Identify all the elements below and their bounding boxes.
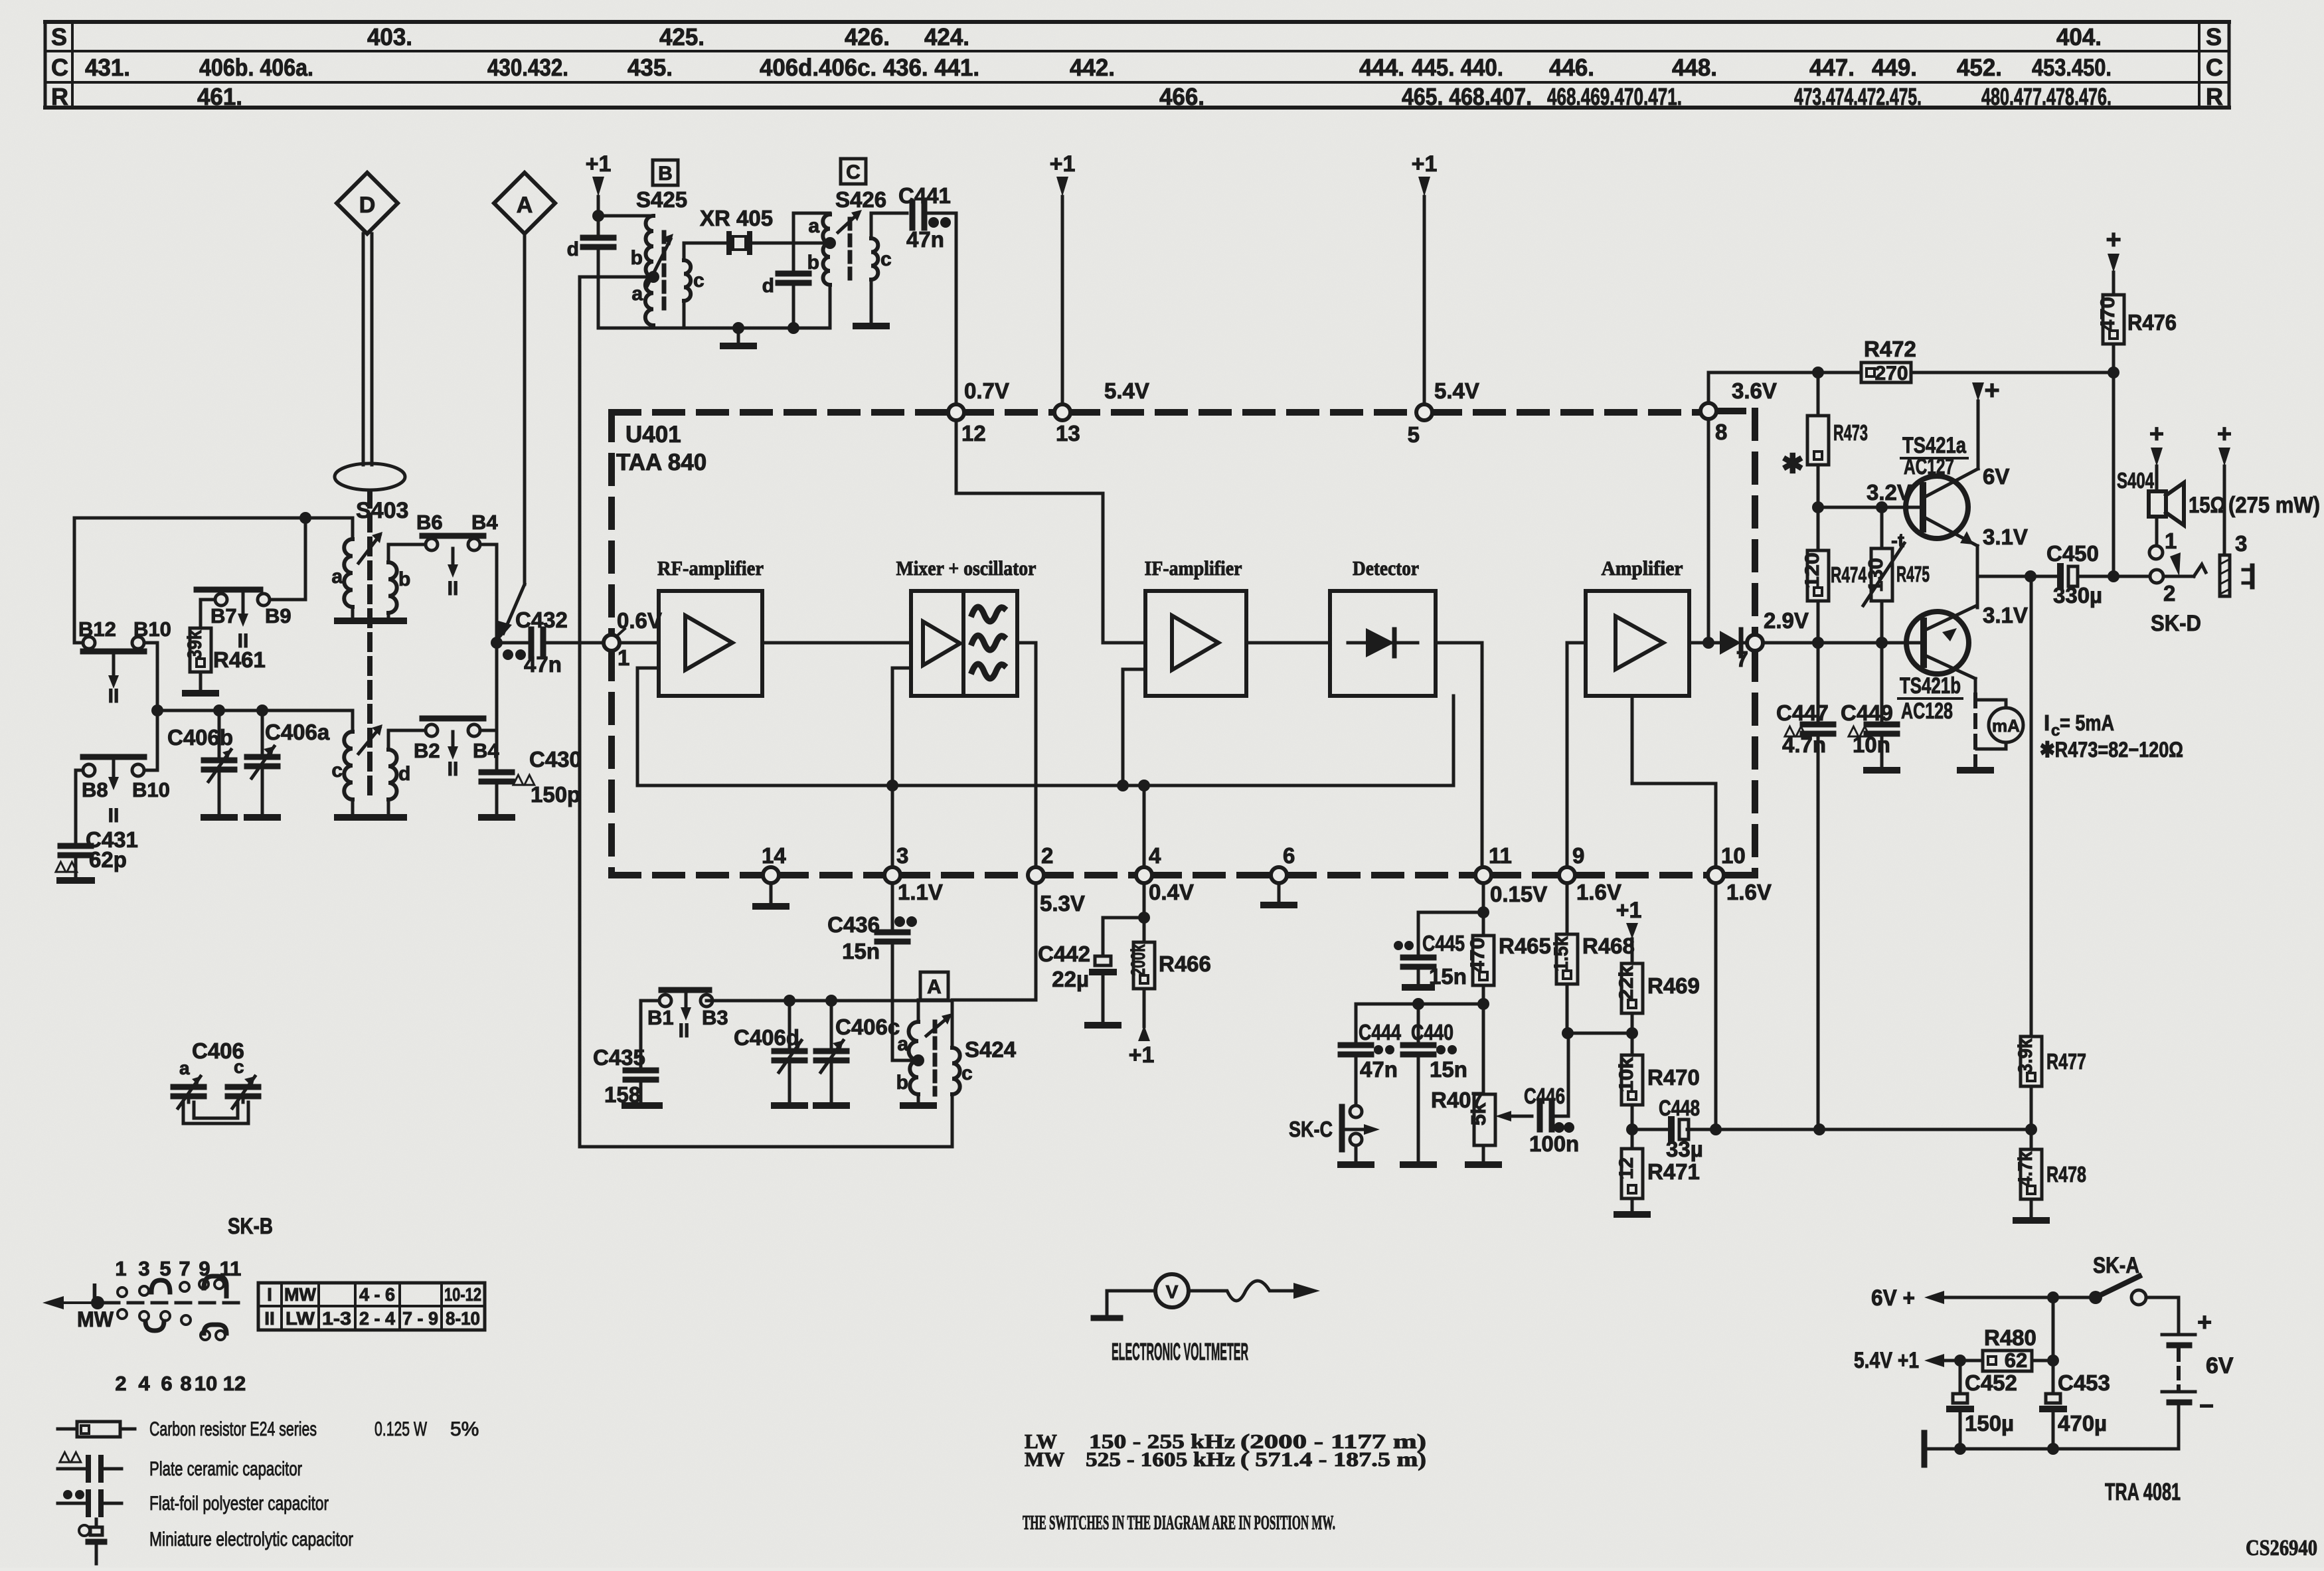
- svg-text:461.: 461.: [197, 83, 242, 110]
- svg-text:33µ: 33µ: [1666, 1137, 1703, 1161]
- svg-text:468.469.470.471.: 468.469.470.471.: [1547, 83, 1682, 110]
- svg-text:C406d: C406d: [734, 1025, 799, 1050]
- svg-text:II: II: [264, 1308, 275, 1329]
- svg-text:Flat-foil polyester capacitor: Flat-foil polyester capacitor: [149, 1493, 329, 1515]
- svg-text:3: 3: [2235, 531, 2247, 556]
- svg-text:C: C: [846, 161, 861, 183]
- svg-text:c: c: [2051, 722, 2060, 740]
- svg-text:150µ: 150µ: [1965, 1411, 2014, 1436]
- svg-text:a: a: [179, 1058, 190, 1078]
- svg-text:R466: R466: [1159, 951, 1211, 976]
- svg-text:C406b: C406b: [167, 725, 233, 750]
- svg-text:R470: R470: [1647, 1065, 1700, 1090]
- svg-text:11: 11: [1489, 843, 1512, 868]
- svg-text:403.: 403.: [367, 23, 412, 50]
- svg-text:C441: C441: [898, 183, 951, 208]
- svg-text:424.: 424.: [924, 23, 969, 50]
- svg-text:R476: R476: [2127, 310, 2177, 335]
- svg-text:R477: R477: [2046, 1049, 2086, 1074]
- svg-text:U401: U401: [625, 422, 681, 448]
- svg-text:3: 3: [896, 843, 908, 868]
- svg-text:d: d: [398, 763, 410, 785]
- svg-text:SK-B: SK-B: [228, 1214, 273, 1239]
- svg-text:IF-amplifier: IF-amplifier: [1145, 556, 1242, 580]
- svg-text:0.125 W: 0.125 W: [374, 1418, 427, 1440]
- svg-text:R469: R469: [1647, 973, 1700, 998]
- svg-text:3: 3: [138, 1257, 149, 1280]
- svg-text:II: II: [448, 578, 459, 600]
- svg-text:6V: 6V: [1983, 464, 2009, 489]
- svg-text:15n: 15n: [842, 939, 880, 963]
- svg-text:+1: +1: [1129, 1042, 1155, 1068]
- svg-text:3.1V: 3.1V: [1983, 525, 2028, 549]
- svg-text:C406c: C406c: [835, 1015, 900, 1039]
- svg-text:a: a: [331, 566, 343, 588]
- svg-text:✱R473=82−120Ω: ✱R473=82−120Ω: [2040, 738, 2183, 762]
- svg-text:R474: R474: [1831, 562, 1867, 587]
- svg-text:465. 468.407.: 465. 468.407.: [1402, 83, 1532, 110]
- svg-text:b: b: [398, 568, 410, 590]
- svg-text:3.9k: 3.9k: [2015, 1038, 2036, 1074]
- svg-text:10-12: 10-12: [444, 1284, 481, 1305]
- svg-text:C: C: [2206, 54, 2223, 81]
- svg-text:R465: R465: [1499, 934, 1551, 958]
- svg-text:6V: 6V: [2206, 1353, 2234, 1378]
- svg-text:a: a: [631, 283, 643, 305]
- svg-text:SK-D: SK-D: [2151, 611, 2201, 636]
- svg-text:444.: 444.: [1359, 54, 1404, 81]
- svg-text:5.4V: 5.4V: [1104, 378, 1149, 403]
- svg-text:6V +: 6V +: [1871, 1285, 1915, 1311]
- svg-text:158: 158: [604, 1082, 641, 1107]
- svg-text:S426: S426: [835, 187, 886, 212]
- svg-text:B2: B2: [414, 739, 440, 762]
- svg-text:5.3V: 5.3V: [1040, 891, 1085, 916]
- svg-text:R478: R478: [2046, 1162, 2086, 1187]
- svg-text:THE SWITCHES IN THE DIAGRAM AR: THE SWITCHES IN THE DIAGRAM ARE IN POSIT…: [1023, 1511, 1335, 1534]
- svg-text:120: 120: [1801, 552, 1823, 588]
- svg-text:1: 1: [618, 645, 629, 670]
- svg-text:12: 12: [1616, 1157, 1637, 1179]
- svg-text:mA: mA: [1992, 716, 2020, 736]
- svg-text:5: 5: [159, 1257, 171, 1280]
- svg-text:406d.406c. 436. 441.: 406d.406c. 436. 441.: [760, 54, 979, 81]
- svg-text:CS26940: CS26940: [2246, 1536, 2317, 1560]
- svg-text:C447: C447: [1776, 701, 1829, 725]
- svg-text:435.: 435.: [627, 54, 673, 81]
- svg-text:+: +: [2149, 420, 2164, 448]
- svg-text:12: 12: [961, 421, 986, 446]
- svg-text:Amplifier: Amplifier: [1602, 556, 1683, 580]
- svg-text:14: 14: [762, 843, 786, 868]
- svg-text:470µ: 470µ: [2058, 1411, 2107, 1436]
- svg-text:△△: △△: [54, 857, 78, 874]
- svg-text:22µ: 22µ: [1052, 967, 1089, 991]
- svg-text:R: R: [51, 83, 68, 110]
- svg-text:c: c: [961, 1062, 973, 1084]
- svg-text:8-10: 8-10: [446, 1308, 480, 1329]
- svg-text:453.450.: 453.450.: [2032, 54, 2112, 81]
- svg-text:c: c: [234, 1056, 244, 1077]
- svg-text:430.432.: 430.432.: [487, 54, 568, 81]
- svg-text:AC128: AC128: [1901, 699, 1953, 724]
- svg-text:C453: C453: [2058, 1370, 2110, 1395]
- svg-text:R472: R472: [1864, 337, 1916, 361]
- svg-text:5.4V +1: 5.4V +1: [1854, 1348, 1919, 1373]
- svg-text:2: 2: [115, 1372, 126, 1395]
- svg-text:150p: 150p: [531, 782, 580, 807]
- svg-text:0.15V: 0.15V: [1490, 882, 1547, 906]
- svg-text:10: 10: [195, 1372, 217, 1395]
- svg-text:C452: C452: [1965, 1370, 2017, 1395]
- svg-text:B8: B8: [82, 778, 108, 801]
- svg-text:445. 440.: 445. 440.: [1412, 54, 1503, 81]
- svg-text:C448: C448: [1659, 1096, 1700, 1120]
- svg-text:C435: C435: [593, 1045, 645, 1070]
- svg-text:B9: B9: [265, 604, 291, 627]
- svg-text:200k: 200k: [1127, 944, 1149, 976]
- svg-text:470: 470: [2097, 297, 2119, 331]
- svg-text:449.: 449.: [1872, 54, 1917, 81]
- svg-text:47n: 47n: [1360, 1057, 1398, 1082]
- svg-text:5k: 5k: [1467, 1102, 1490, 1125]
- svg-text:B10: B10: [132, 778, 170, 801]
- svg-text:SK-C: SK-C: [1289, 1117, 1333, 1141]
- svg-text:4.7k: 4.7k: [2015, 1151, 2036, 1187]
- svg-text:+: +: [2217, 420, 2232, 448]
- svg-text:425.: 425.: [659, 23, 705, 50]
- svg-text:C444: C444: [1359, 1020, 1402, 1044]
- svg-text:SK-A: SK-A: [2093, 1253, 2139, 1278]
- svg-text:431.: 431.: [85, 54, 130, 81]
- svg-text:+: +: [2197, 1309, 2212, 1337]
- svg-text:2: 2: [2163, 581, 2175, 606]
- svg-text:270: 270: [1874, 363, 1908, 384]
- svg-text:C436: C436: [827, 912, 880, 937]
- svg-text:TRA 4081: TRA 4081: [2105, 1478, 2181, 1505]
- svg-text:c: c: [880, 248, 892, 270]
- svg-text:13: 13: [1056, 421, 1080, 446]
- svg-text:MW: MW: [284, 1284, 317, 1305]
- svg-text:525 - 1605 kHz: 525 - 1605 kHz: [1086, 1447, 1235, 1471]
- svg-text:R: R: [2206, 83, 2223, 110]
- svg-text:3.1V: 3.1V: [1983, 603, 2028, 627]
- svg-text:Carbon resistor E24 series: Carbon resistor E24 series: [149, 1418, 317, 1440]
- svg-text:II: II: [108, 685, 120, 707]
- svg-text:406b. 406a.: 406b. 406a.: [199, 54, 313, 81]
- svg-text:+: +: [1984, 376, 1999, 405]
- svg-text:2.9V: 2.9V: [1764, 608, 1809, 633]
- svg-text:10k: 10k: [1616, 1057, 1637, 1092]
- svg-text:B6: B6: [416, 511, 443, 534]
- svg-text:V: V: [1166, 1282, 1179, 1302]
- svg-text:5: 5: [1408, 422, 1420, 447]
- svg-text:C446: C446: [1524, 1084, 1565, 1108]
- svg-text:A: A: [517, 193, 533, 218]
- svg-text:22k: 22k: [1616, 965, 1637, 1001]
- svg-text:TS421b: TS421b: [1900, 673, 1961, 699]
- svg-text:B7: B7: [210, 604, 237, 627]
- svg-text:1: 1: [115, 1257, 126, 1280]
- svg-text:c: c: [693, 270, 705, 291]
- svg-text:LW: LW: [286, 1308, 315, 1329]
- svg-text:7 - 9: 7 - 9: [402, 1308, 438, 1329]
- svg-text:+: +: [2106, 225, 2121, 254]
- svg-text:B: B: [658, 163, 673, 185]
- svg-text:C445: C445: [1422, 931, 1465, 955]
- svg-text:R461: R461: [213, 647, 266, 672]
- svg-text:I: I: [2044, 710, 2050, 735]
- svg-text:R471: R471: [1647, 1159, 1700, 1184]
- svg-text:B12: B12: [78, 618, 116, 641]
- svg-text:15Ω: 15Ω: [2189, 493, 2226, 518]
- svg-text:C432: C432: [515, 608, 568, 632]
- svg-text:−: −: [2199, 1392, 2214, 1420]
- svg-text:6: 6: [1283, 843, 1295, 868]
- svg-text:Plate ceramic capacitor: Plate ceramic capacitor: [149, 1458, 302, 1480]
- svg-text:S424: S424: [965, 1037, 1017, 1062]
- svg-text:Miniature electrolytic capacit: Miniature electrolytic capacitor: [149, 1529, 353, 1550]
- svg-text:2: 2: [1041, 843, 1053, 868]
- svg-text:3.6V: 3.6V: [1732, 378, 1777, 403]
- svg-text:5%: 5%: [450, 1418, 479, 1440]
- svg-text:426.: 426.: [845, 23, 890, 50]
- svg-text:b: b: [631, 247, 643, 269]
- svg-text:452.: 452.: [1957, 54, 2002, 81]
- svg-text:442.: 442.: [1070, 54, 1115, 81]
- svg-text:62: 62: [2005, 1349, 2027, 1372]
- svg-text:+1: +1: [586, 151, 612, 177]
- svg-text:S: S: [2206, 23, 2222, 50]
- svg-text:Detector: Detector: [1353, 556, 1419, 580]
- svg-text:R475: R475: [1896, 562, 1930, 586]
- svg-text:S404: S404: [2117, 468, 2154, 493]
- svg-text:+1: +1: [1616, 898, 1642, 923]
- svg-text:B4: B4: [471, 511, 498, 534]
- svg-text:330µ: 330µ: [2053, 583, 2102, 608]
- svg-text:B3: B3: [702, 1006, 728, 1029]
- svg-text:C430: C430: [529, 747, 582, 772]
- svg-text:C449: C449: [1841, 701, 1893, 725]
- svg-text:AC127: AC127: [1904, 454, 1954, 479]
- svg-text:447.: 447.: [1809, 54, 1855, 81]
- svg-text:S425: S425: [636, 187, 687, 212]
- svg-text:△△: △△: [58, 1447, 82, 1464]
- svg-text:II: II: [679, 1020, 690, 1042]
- svg-text:a: a: [808, 215, 819, 237]
- svg-text:8: 8: [180, 1372, 191, 1395]
- svg-text:A: A: [927, 976, 942, 998]
- svg-text:62p: 62p: [89, 847, 127, 872]
- svg-text:D: D: [359, 193, 376, 218]
- svg-text:10n: 10n: [1853, 732, 1890, 757]
- svg-text:47n: 47n: [524, 652, 562, 677]
- svg-text:RF-amplifier: RF-amplifier: [657, 556, 764, 580]
- svg-text:1.1V: 1.1V: [898, 880, 943, 904]
- svg-text:II: II: [108, 805, 120, 827]
- svg-text:Mixer + oscillator: Mixer + oscillator: [896, 556, 1037, 580]
- svg-text:R473: R473: [1833, 420, 1868, 445]
- svg-text:0.4V: 0.4V: [1149, 880, 1194, 904]
- svg-text:c: c: [331, 760, 343, 782]
- svg-text:MW: MW: [77, 1307, 114, 1331]
- svg-text:466.: 466.: [1159, 83, 1204, 110]
- svg-text:4: 4: [1149, 843, 1161, 868]
- svg-text:404.: 404.: [2056, 23, 2102, 50]
- svg-text:B10: B10: [133, 618, 171, 641]
- svg-text:I: I: [267, 1284, 272, 1305]
- svg-text:47n: 47n: [906, 227, 944, 252]
- svg-text:C442: C442: [1038, 942, 1090, 966]
- svg-text:S: S: [51, 23, 67, 50]
- svg-text:b: b: [896, 1072, 908, 1094]
- svg-text:+1: +1: [1412, 151, 1438, 177]
- svg-text:-t: -t: [1891, 530, 1904, 552]
- svg-text:15n: 15n: [1429, 964, 1467, 989]
- svg-text:b: b: [807, 252, 819, 274]
- svg-text:R468: R468: [1582, 934, 1635, 958]
- svg-text:5.4V: 5.4V: [1434, 378, 1479, 403]
- svg-text:470: 470: [1467, 938, 1489, 973]
- svg-text:1-3: 1-3: [322, 1308, 351, 1329]
- svg-text:R480: R480: [1984, 1325, 2036, 1350]
- svg-text:C406a: C406a: [265, 720, 330, 744]
- svg-text:( 571.4 - 187.5 m): ( 571.4 - 187.5 m): [1240, 1447, 1426, 1471]
- svg-text:446.: 446.: [1549, 54, 1594, 81]
- svg-text:1.6V: 1.6V: [1576, 880, 1621, 904]
- svg-text:+1: +1: [1050, 151, 1076, 177]
- svg-text:448.: 448.: [1672, 54, 1717, 81]
- svg-text:0.7V: 0.7V: [964, 378, 1009, 403]
- svg-text:B4: B4: [473, 739, 499, 762]
- svg-text:1.6V: 1.6V: [1726, 880, 1772, 904]
- svg-text:9: 9: [1572, 843, 1584, 868]
- svg-text:1: 1: [2165, 529, 2177, 553]
- svg-text:473.474.472.475.: 473.474.472.475.: [1794, 83, 1922, 110]
- svg-text:4: 4: [138, 1372, 150, 1395]
- svg-text:MW: MW: [1025, 1447, 1064, 1471]
- svg-text:0.6V: 0.6V: [617, 608, 662, 633]
- svg-text:d: d: [567, 238, 579, 260]
- svg-text:8: 8: [1715, 420, 1727, 444]
- svg-text:II: II: [448, 758, 459, 780]
- svg-text:ELECTRONIC VOLTMETER: ELECTRONIC VOLTMETER: [1112, 1338, 1248, 1365]
- svg-text:12: 12: [223, 1372, 246, 1395]
- svg-text:1.5k: 1.5k: [1550, 936, 1572, 971]
- svg-text:C440: C440: [1411, 1020, 1453, 1044]
- svg-text:C450: C450: [2046, 541, 2099, 566]
- svg-text:XR 405: XR 405: [700, 206, 773, 230]
- svg-text:(275 mW): (275 mW): [2228, 493, 2320, 518]
- svg-text:B1: B1: [647, 1006, 674, 1029]
- svg-text:39k: 39k: [184, 630, 206, 659]
- svg-text:= 5mA: = 5mA: [2060, 710, 2114, 735]
- svg-text:C: C: [51, 54, 68, 81]
- svg-text:2 - 4: 2 - 4: [359, 1308, 395, 1329]
- svg-text:S403: S403: [356, 498, 408, 523]
- svg-text:15n: 15n: [1430, 1057, 1467, 1082]
- svg-text:100n: 100n: [1529, 1131, 1579, 1156]
- svg-text:6: 6: [161, 1372, 172, 1395]
- svg-text:TAA 840: TAA 840: [616, 450, 706, 475]
- svg-text:7: 7: [179, 1257, 190, 1280]
- svg-text:✱: ✱: [1782, 450, 1804, 479]
- svg-text:10: 10: [1721, 843, 1746, 868]
- svg-text:d: d: [762, 275, 774, 297]
- svg-text:480.477.478.476.: 480.477.478.476.: [1981, 83, 2112, 110]
- svg-text:4 - 6: 4 - 6: [359, 1284, 395, 1305]
